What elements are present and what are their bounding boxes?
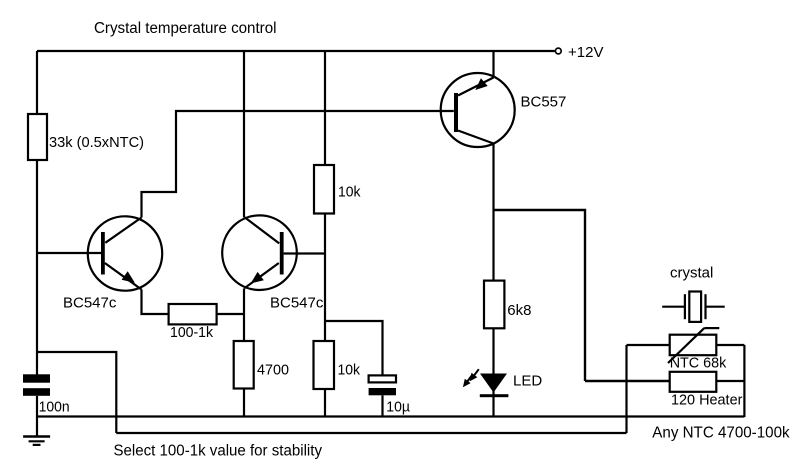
wire collector branch to heater <box>494 210 586 381</box>
wire heater left lead <box>585 380 670 383</box>
svg-text:Crystal temperature control: Crystal temperature control <box>94 20 277 37</box>
wire 10u bottom to ground rail <box>381 395 383 417</box>
wire BC557 collector down to 6k8 <box>492 143 494 281</box>
wire BC557 emitter to +12V rail <box>492 50 494 78</box>
wire Q2 base to 10k <box>284 252 325 254</box>
wire right bracket to ground rail <box>743 345 745 417</box>
wire ground rail A <box>37 415 744 417</box>
wire Q1 base <box>37 252 102 254</box>
capacitor C2 10u top plate <box>369 375 396 382</box>
LED light arrow 2 <box>463 375 472 387</box>
wire NTC right lead <box>716 344 744 346</box>
wire Q2 collector to +12V rail <box>243 50 245 217</box>
resistor R1 33k <box>28 114 47 160</box>
svg-text:BC547c: BC547c <box>63 295 117 312</box>
transistor Q2 BC547c (mirrored) <box>222 215 297 290</box>
svg-text:120 Heater: 120 Heater <box>671 392 742 409</box>
wire 10k bottom through Q2 base node to R5 <box>324 214 326 342</box>
wire rail B (NTC return) <box>116 432 626 434</box>
svg-text:10µ: 10µ <box>386 399 410 416</box>
svg-text:4700: 4700 <box>257 362 289 379</box>
wire left rail top (rail to 33k) <box>36 51 38 114</box>
wire 100n bottom to ground symbol <box>36 396 38 436</box>
svg-text:100n: 100n <box>39 398 70 415</box>
resistor R5 10k <box>314 341 335 389</box>
wire 6k8 to LED to ground rail <box>492 328 494 417</box>
resistor R7 120 Heater <box>670 372 717 392</box>
wire 33k bottom to 100n top <box>36 160 38 375</box>
node +12V terminal <box>555 48 561 54</box>
svg-text:100-1k: 100-1k <box>170 324 213 341</box>
svg-text:Any NTC 4700-100k: Any NTC 4700-100k <box>652 425 790 442</box>
wire Q1 collector to BC557 base <box>142 111 454 218</box>
wire Q2 emitter down <box>243 288 245 341</box>
ground <box>23 437 50 445</box>
wire 100-1k right lead <box>217 313 244 315</box>
svg-text:NTC 68k: NTC 68k <box>670 355 727 372</box>
wire branch to 10u capacitor <box>325 321 383 375</box>
svg-text:crystal: crystal <box>670 265 713 282</box>
wire +12V to 10k (R4) <box>324 50 326 165</box>
crystal X1 <box>662 292 725 322</box>
svg-text:LED: LED <box>513 373 542 390</box>
wire Q1 emitter to 100-1k <box>142 290 169 315</box>
resistor R2 100-1k <box>169 304 217 324</box>
capacitor C1 100n top plate <box>23 374 50 382</box>
svg-text:Select 100-1k value for stabil: Select 100-1k value for stability <box>114 443 323 460</box>
wire heater right lead <box>716 380 744 382</box>
wire 4700 bottom to ground rail <box>243 389 245 418</box>
transistor Q1 BC547c <box>88 216 162 290</box>
resistor R3 4700 <box>234 341 254 389</box>
svg-text:33k (0.5xNTC): 33k (0.5xNTC) <box>49 134 144 151</box>
wire junction node to rail B <box>37 352 116 433</box>
svg-text:+12V: +12V <box>568 44 603 61</box>
wire NTC left lead <box>627 344 670 346</box>
thermistor RT1 NTC 68k <box>668 328 719 363</box>
svg-text:BC557: BC557 <box>521 94 567 111</box>
svg-text:10k: 10k <box>338 184 361 201</box>
resistor R4 10k <box>314 165 334 214</box>
transistor U1 BC557 <box>441 73 515 147</box>
svg-text:6k8: 6k8 <box>507 302 531 319</box>
resistor R6 6k8 <box>484 281 504 329</box>
wire +12V top rail <box>37 50 555 52</box>
svg-text:BC547c: BC547c <box>270 295 324 312</box>
svg-text:10k: 10k <box>338 362 361 379</box>
capacitor C1 100n bottom plate <box>23 388 50 396</box>
wire 10k R5 bottom to ground rail <box>324 389 326 417</box>
LED D1 <box>480 374 509 398</box>
wire left bracket (NTC to rail B) <box>625 345 627 433</box>
LED light arrow 1 <box>470 369 479 381</box>
capacitor C2 10u bottom plate <box>369 388 396 395</box>
